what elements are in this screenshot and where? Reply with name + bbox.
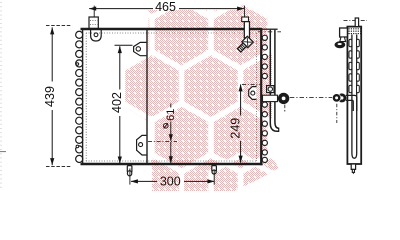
svg-text:402: 402 [110, 92, 124, 113]
svg-text:439: 439 [43, 86, 57, 107]
svg-text:249: 249 [229, 118, 243, 139]
svg-text:465: 465 [155, 0, 176, 14]
svg-text:300: 300 [160, 175, 181, 189]
svg-text:61: 61 [165, 109, 177, 121]
